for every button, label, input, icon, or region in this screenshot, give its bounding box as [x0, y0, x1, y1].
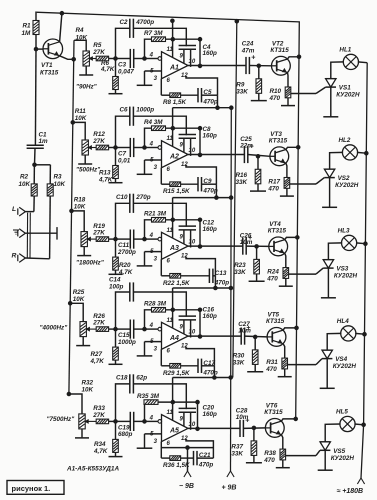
svg-text:A3: A3: [169, 245, 179, 252]
svg-text:HL1: HL1: [339, 46, 351, 53]
svg-text:160p: 160p: [203, 313, 218, 320]
svg-text:10: 10: [189, 330, 196, 336]
svg-text:R1: R1: [23, 23, 32, 30]
svg-text:6: 6: [167, 78, 171, 84]
svg-text:"1800Hz": "1800Hz": [76, 260, 105, 267]
svg-text:A1: A1: [169, 65, 179, 72]
svg-text:R30: R30: [233, 352, 245, 359]
svg-text:10K: 10K: [75, 115, 87, 122]
svg-text:КТ315: КТ315: [264, 409, 283, 416]
svg-text:A2: A2: [169, 154, 179, 161]
svg-text:R25: R25: [73, 289, 85, 296]
svg-text:27K: 27K: [92, 320, 105, 327]
svg-text:R3: R3: [54, 174, 63, 181]
svg-text:270p: 270p: [135, 194, 151, 201]
svg-text:9: 9: [180, 234, 184, 240]
svg-text:КТ315: КТ315: [269, 138, 288, 145]
svg-text:4: 4: [149, 415, 154, 421]
svg-text:L: L: [12, 206, 16, 213]
svg-text:4,7K: 4,7K: [98, 176, 113, 183]
svg-text:9: 9: [180, 417, 184, 423]
svg-text:9: 9: [180, 143, 184, 149]
svg-text:− 9В: − 9В: [179, 483, 194, 490]
svg-text:27K: 27K: [92, 230, 105, 237]
svg-text:VS3: VS3: [336, 266, 348, 273]
svg-text:C5: C5: [203, 89, 212, 96]
svg-text:КУ202Н: КУ202Н: [334, 273, 358, 280]
svg-text:10K: 10K: [54, 181, 66, 188]
svg-text:VS4: VS4: [335, 356, 347, 363]
svg-text:470: 470: [263, 457, 275, 464]
svg-text:КТ315: КТ315: [268, 228, 287, 235]
svg-text:R11: R11: [75, 108, 87, 115]
svg-text:10: 10: [189, 148, 196, 154]
svg-text:6: 6: [167, 441, 171, 447]
svg-text:10m: 10m: [236, 414, 249, 421]
svg-text:R9: R9: [236, 81, 245, 88]
svg-text:R29 1,5K: R29 1,5K: [163, 370, 190, 377]
svg-text:HL3: HL3: [338, 227, 350, 234]
svg-text:R8 1,5K: R8 1,5K: [163, 99, 187, 106]
svg-text:10m: 10m: [238, 327, 251, 334]
svg-text:C21: C21: [199, 452, 211, 459]
svg-text:33K: 33K: [236, 88, 248, 95]
svg-text:470: 470: [266, 275, 278, 282]
svg-text:рисунок 1.: рисунок 1.: [12, 484, 51, 493]
svg-text:C6: C6: [119, 107, 128, 114]
svg-text:160p: 160p: [203, 411, 218, 418]
svg-text:R24: R24: [267, 268, 279, 275]
svg-text:27K: 27K: [92, 138, 105, 145]
svg-text:VS1: VS1: [339, 85, 351, 92]
svg-text:1M: 1M: [22, 30, 32, 37]
svg-text:33K: 33K: [234, 269, 246, 276]
svg-text:C14: C14: [109, 277, 121, 284]
svg-text:6: 6: [167, 167, 171, 173]
svg-text:0,047: 0,047: [118, 68, 134, 75]
svg-text:C10: C10: [116, 194, 128, 201]
svg-text:1000p: 1000p: [136, 107, 154, 114]
svg-text:R18: R18: [74, 196, 86, 203]
svg-text:10: 10: [189, 422, 196, 428]
svg-text:33K: 33K: [231, 450, 243, 457]
svg-text:C18: C18: [116, 374, 128, 381]
svg-text:2700p: 2700p: [117, 249, 136, 256]
svg-text:4,7K: 4,7K: [118, 269, 133, 276]
svg-text:R16: R16: [236, 172, 248, 179]
svg-text:R37: R37: [231, 443, 243, 450]
svg-text:R35 3M: R35 3M: [137, 393, 160, 400]
svg-text:47m: 47m: [241, 47, 255, 54]
svg-text:27K: 27K: [92, 49, 105, 56]
svg-text:"7500Hz": "7500Hz": [47, 416, 76, 423]
svg-text:R7 3M: R7 3M: [144, 30, 163, 37]
svg-text:VS5: VS5: [333, 448, 345, 455]
svg-text:HL4: HL4: [337, 318, 349, 325]
svg-text:160p: 160p: [203, 50, 218, 57]
svg-text:470p: 470p: [202, 369, 218, 376]
svg-text:470: 470: [267, 185, 279, 192]
svg-text:КУ202Н: КУ202Н: [335, 182, 359, 189]
svg-text:3: 3: [154, 347, 158, 353]
svg-text:4700p: 4700p: [135, 19, 154, 26]
svg-text:КУ202Н: КУ202Н: [336, 92, 360, 99]
svg-text:R38: R38: [264, 450, 276, 457]
svg-text:КУ202Н: КУ202Н: [333, 363, 357, 370]
svg-text:C9: C9: [203, 178, 212, 185]
svg-text:4: 4: [149, 233, 154, 239]
svg-text:10m: 10m: [240, 239, 253, 246]
svg-text:+ 9В: + 9В: [222, 485, 237, 492]
svg-text:КУ202Н: КУ202Н: [331, 455, 355, 462]
svg-text:≈ +180В: ≈ +180В: [337, 488, 364, 495]
svg-text:4,7K: 4,7K: [90, 358, 105, 365]
svg-text:"90Hz": "90Hz": [76, 84, 98, 91]
svg-text:VS2: VS2: [338, 175, 350, 182]
svg-text:A4: A4: [169, 335, 179, 342]
svg-text:C24: C24: [242, 40, 254, 47]
svg-text:680p: 680p: [118, 431, 133, 438]
svg-text:160p: 160p: [203, 226, 218, 233]
svg-text:КТ315: КТ315: [270, 47, 289, 54]
svg-text:КТ315: КТ315: [40, 70, 59, 77]
svg-text:C2: C2: [119, 19, 128, 26]
svg-text:6: 6: [167, 349, 171, 355]
svg-text:0,01: 0,01: [118, 157, 131, 164]
svg-text:470p: 470p: [202, 188, 218, 195]
svg-text:10: 10: [189, 240, 196, 246]
svg-text:R17: R17: [268, 178, 280, 185]
svg-text:3: 3: [154, 257, 158, 263]
svg-text:10K: 10K: [19, 181, 31, 188]
svg-text:3: 3: [154, 165, 158, 171]
svg-text:HL5: HL5: [336, 409, 348, 416]
svg-text:10: 10: [189, 59, 196, 65]
svg-text:4: 4: [149, 323, 154, 329]
svg-text:22m: 22m: [239, 142, 253, 149]
svg-text:100p: 100p: [109, 284, 124, 291]
svg-text:VT1: VT1: [41, 62, 53, 69]
svg-text:R4 3M: R4 3M: [144, 119, 163, 126]
svg-text:1000p: 1000p: [118, 339, 136, 346]
svg-text:"4000Hz": "4000Hz": [40, 325, 69, 332]
svg-text:R32: R32: [82, 380, 94, 387]
svg-text:470p: 470p: [214, 279, 230, 286]
svg-text:КТ315: КТ315: [266, 318, 285, 325]
svg-text:27K: 27K: [92, 412, 105, 419]
svg-text:62p: 62p: [136, 374, 147, 381]
svg-text:R36 1,5K: R36 1,5K: [163, 462, 190, 469]
svg-text:3: 3: [154, 439, 158, 445]
svg-text:470: 470: [269, 95, 281, 102]
svg-text:4: 4: [149, 142, 154, 148]
svg-text:470p: 470p: [198, 462, 214, 469]
svg-text:"500Hz": "500Hz": [76, 166, 101, 173]
svg-text:R10: R10: [270, 88, 282, 95]
svg-text:R2: R2: [20, 174, 29, 181]
svg-text:1m: 1m: [39, 138, 49, 145]
svg-text:R15 1,5K: R15 1,5K: [163, 188, 190, 195]
svg-text:R21 3M: R21 3M: [144, 211, 167, 218]
svg-text:4: 4: [149, 53, 154, 59]
svg-text:160p: 160p: [203, 133, 218, 140]
svg-text:A5: A5: [169, 427, 179, 434]
svg-text:4,7K: 4,7K: [93, 448, 108, 455]
svg-text:33K: 33K: [236, 179, 248, 186]
svg-text:R23: R23: [234, 262, 246, 269]
svg-text:9: 9: [180, 54, 184, 60]
svg-text:470p: 470p: [202, 99, 218, 106]
svg-text:R31: R31: [266, 359, 278, 366]
svg-text:R4: R4: [76, 27, 85, 34]
svg-text:C17: C17: [203, 360, 215, 367]
svg-text:470: 470: [265, 366, 277, 373]
svg-text:9: 9: [180, 324, 184, 330]
svg-text:R28 3M: R28 3M: [144, 301, 167, 308]
svg-text:6: 6: [167, 259, 171, 265]
svg-text:10K: 10K: [82, 387, 94, 394]
svg-text:33K: 33K: [233, 359, 245, 366]
svg-text:R: R: [12, 253, 17, 260]
svg-text:HL2: HL2: [339, 137, 351, 144]
svg-text:10K: 10K: [73, 296, 85, 303]
svg-text:А1-А5-К553УД1А: А1-А5-К553УД1А: [66, 466, 119, 473]
svg-text:10K: 10K: [76, 35, 88, 42]
svg-text:R22 1,5K: R22 1,5K: [163, 280, 190, 287]
svg-text:4,7K: 4,7K: [100, 66, 115, 73]
svg-text:10K: 10K: [74, 203, 86, 210]
svg-text:3: 3: [154, 76, 158, 82]
svg-text:C13: C13: [215, 270, 227, 277]
